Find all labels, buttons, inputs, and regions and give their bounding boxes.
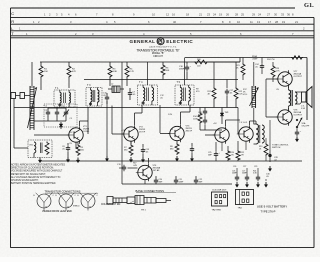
wire detector out — [200, 129, 222, 131]
label VT4 — [153, 165, 161, 172]
transistor VT3 second IF amp — [168, 125, 184, 142]
label C21 — [179, 179, 185, 183]
transistor VT2 first IF amp — [122, 125, 138, 142]
capacitor C29 to ground — [256, 168, 260, 187]
title underline base connections — [136, 191, 176, 193]
svg-text:OSC: OSC — [29, 145, 34, 147]
svg-text:OUTPUT: OUTPUT — [294, 115, 303, 117]
wire VT3 base drop — [159, 105, 161, 133]
resistor R19 — [264, 138, 268, 161]
tone switch S2 — [269, 150, 272, 162]
svg-text:ON-OFF: ON-OFF — [302, 125, 310, 127]
wire VT2 collector to T4 — [135, 105, 143, 125]
transistor VT6 driver — [237, 125, 253, 142]
gang section box — [44, 104, 77, 127]
ground C15 — [191, 156, 193, 159]
diode D1 — [59, 122, 63, 129]
svg-text:1ST AF: 1ST AF — [153, 169, 161, 172]
label C25 — [208, 152, 213, 156]
capacitor C7 — [128, 88, 132, 100]
label C12 — [160, 95, 165, 99]
label C19 — [117, 164, 122, 166]
label C26 top — [232, 171, 237, 175]
svg-text:C: C — [11, 11, 14, 16]
label C5 — [70, 118, 72, 120]
resistor R11 — [212, 62, 216, 108]
capacitor C4 trimmer — [63, 108, 69, 121]
IF can side view — [107, 196, 171, 205]
label C27 — [243, 166, 246, 168]
label R12 — [239, 91, 244, 95]
wire rail continue — [208, 61, 240, 63]
svg-text:50MF: 50MF — [179, 181, 185, 183]
transistor VT8 output — [276, 108, 292, 125]
svg-text:OUTPUT: OUTPUT — [294, 76, 303, 78]
wire VT2 base drop — [111, 106, 113, 135]
label R24 — [267, 59, 275, 61]
component locator ruler — [11, 7, 296, 9]
label C8 — [62, 146, 66, 150]
capacitor C18 — [203, 108, 207, 131]
transistor VT7 output — [276, 70, 292, 87]
label C27 top — [242, 171, 247, 175]
label C4 — [62, 106, 64, 108]
ground osc — [39, 158, 41, 161]
label VT6 T6 ratio — [239, 122, 248, 124]
resistor R23 — [271, 62, 275, 82]
label C20 — [159, 179, 164, 183]
svg-text:24: 24 — [258, 13, 261, 17]
capacitor C27 to ground — [245, 168, 249, 187]
resistor R10 series — [194, 60, 208, 64]
capacitor C17 — [225, 80, 229, 108]
resistor R6 — [161, 62, 165, 80]
capacitor C20 — [154, 176, 158, 184]
label C2 trimmer — [45, 106, 47, 108]
wire base link — [265, 79, 267, 117]
wire VT4 collector up — [149, 158, 161, 164]
svg-text:C4: C4 — [62, 106, 64, 108]
svg-text:15K: 15K — [44, 71, 48, 73]
wire right edge drop — [306, 58, 308, 121]
label R7 — [124, 147, 128, 151]
diode D2 detector — [220, 108, 224, 125]
wire upper right rail — [185, 57, 307, 59]
ground C31 — [296, 137, 298, 140]
wire VT6 emitter — [245, 141, 247, 150]
capacitor C14 — [141, 144, 145, 157]
svg-text:3.9K: 3.9K — [113, 71, 118, 73]
svg-text:3.5Ω: 3.5Ω — [301, 108, 306, 110]
capacitor C24 — [260, 58, 264, 75]
svg-text:1.8V: 1.8V — [168, 114, 173, 116]
wire VT2 base — [112, 133, 124, 135]
label C10 — [103, 93, 108, 97]
svg-text:40: 40 — [173, 20, 176, 24]
wire VT6 collector to T6 — [250, 121, 257, 125]
svg-text:VOL.: VOL. — [243, 94, 248, 96]
label VT7 — [294, 71, 303, 78]
svg-text:21: 21 — [295, 20, 298, 24]
svg-text:GENERAL: GENERAL — [130, 39, 156, 44]
label C17 — [230, 90, 235, 94]
label R23 — [276, 68, 281, 72]
connection diagram transistor 2 — [56, 193, 77, 211]
wire VT1 collector — [80, 107, 89, 134]
wire antenna down-lead — [14, 99, 28, 149]
svg-text:12: 12 — [166, 13, 169, 17]
transistor VT4 first AF — [136, 164, 152, 181]
ground R7 — [130, 157, 132, 160]
label S1 — [302, 122, 310, 127]
svg-text:47K: 47K — [72, 71, 76, 73]
wire converter base net — [34, 107, 66, 121]
label R1 — [44, 69, 48, 74]
label VT5 — [213, 123, 217, 125]
label tone control switch — [272, 145, 289, 150]
svg-text:26: 26 — [226, 13, 229, 17]
ground C6 — [106, 156, 108, 159]
label C18 — [198, 112, 203, 116]
svg-text:METER WITH NO SIGNAL INPUT;: METER WITH NO SIGNAL INPUT; — [11, 173, 46, 176]
svg-text:10K: 10K — [166, 70, 170, 72]
svg-text:ALL VOLTAGES NEGATIVE WITH RES: ALL VOLTAGES NEGATIVE WITH RESPECT TO — [11, 176, 61, 179]
label R19 — [259, 146, 262, 150]
title GENERAL ELECTRIC — [130, 39, 194, 44]
capacitor C15 — [190, 143, 194, 156]
resistor R5 — [76, 143, 80, 157]
wire C6 down — [106, 101, 108, 156]
capacitor C21 — [174, 176, 178, 184]
wire volume top — [253, 62, 255, 86]
label R6 — [166, 68, 170, 73]
label D2 — [225, 112, 230, 114]
wire volume bottom — [253, 108, 255, 124]
capacitor C26 to ground — [235, 168, 239, 187]
svg-text:R: R — [11, 19, 14, 24]
svg-text:R24 750: R24 750 — [267, 59, 275, 61]
ground C14b — [142, 157, 144, 160]
volume control R17 — [250, 86, 259, 108]
label C14b — [146, 149, 151, 153]
svg-text:SHIELD: SHIELD — [73, 206, 80, 208]
transformer T4 second IF — [138, 85, 158, 105]
wire AGC bus — [14, 107, 238, 109]
wire VT6 base — [237, 108, 239, 135]
connection diagram transistor 3 — [78, 193, 99, 211]
label R17 volume — [243, 89, 248, 96]
capacitor C25 electrolytic — [214, 142, 221, 161]
resistor R20 — [226, 146, 230, 161]
wire ground bus — [40, 160, 302, 162]
svg-text:21: 21 — [199, 13, 202, 17]
resistor R8 — [175, 141, 179, 155]
svg-text:TR2 TRB: TR2 TRB — [212, 209, 222, 211]
label C24 — [255, 64, 260, 68]
wire VT4 emitter down — [144, 180, 146, 184]
svg-text:27: 27 — [267, 13, 270, 17]
svg-text:CIRCUIT: CIRCUIT — [153, 55, 163, 58]
label T2 osc — [29, 145, 34, 147]
label R2 — [72, 69, 76, 74]
svg-text:1ST IF: 1ST IF — [139, 132, 146, 134]
wire VT4 base drop — [121, 150, 123, 184]
wire battery feed — [296, 127, 298, 128]
ground R5 — [77, 158, 79, 161]
label colour dot arrow — [128, 201, 134, 204]
wire VT1 emitter — [75, 142, 77, 148]
resistor R21 — [241, 58, 245, 81]
label C26 — [233, 166, 236, 168]
svg-text:10: 10 — [237, 20, 240, 24]
title underline transistor connections — [45, 192, 98, 194]
label VT4 voltages — [133, 163, 138, 167]
svg-text:2.7K: 2.7K — [130, 71, 135, 73]
label VT3 — [186, 126, 193, 133]
resistor R14 — [198, 108, 202, 131]
filter coil L2 — [108, 86, 124, 93]
svg-text:28: 28 — [275, 20, 278, 24]
svg-text:SWITCH: SWITCH — [272, 147, 281, 149]
svg-text:T 6 1:4.5: T 6 1:4.5 — [239, 122, 248, 124]
transistor VT1 converter — [67, 126, 83, 143]
loudspeaker LS — [300, 87, 312, 108]
ruler R row numbers — [33, 20, 298, 24]
svg-text:.05MF: .05MF — [252, 59, 258, 61]
label R8 — [170, 146, 174, 150]
transformer T5 third IF — [175, 85, 194, 105]
label LS — [301, 106, 306, 110]
label C29 top — [253, 171, 257, 175]
svg-text:19: 19 — [282, 20, 285, 24]
label R19A — [252, 55, 258, 60]
ground C8 — [67, 157, 69, 160]
svg-text:-1.5V: -1.5V — [121, 130, 126, 132]
label R14 — [193, 116, 198, 120]
svg-text:270: 270 — [231, 154, 234, 156]
ruler L row numbers — [19, 26, 305, 30]
oscillator coil T1 — [54, 90, 75, 107]
capacitor C31 electrolytic — [295, 128, 302, 136]
capacitor C19 coupling — [119, 165, 126, 171]
svg-text:TRANSISTOR CONNECTIONS: TRANSISTOR CONNECTIONS — [45, 190, 81, 194]
svg-text:18: 18 — [186, 13, 189, 17]
ruler C row numbers — [44, 13, 294, 17]
tuning gang C1 — [28, 86, 37, 130]
label VT2 — [139, 127, 146, 134]
svg-text:C2: C2 — [45, 106, 47, 108]
wire top supply rail — [40, 61, 240, 63]
wire VT5 base — [205, 134, 215, 136]
label R3 — [113, 69, 118, 74]
label VT8 — [294, 110, 303, 117]
wire tone feed — [269, 120, 271, 150]
svg-text:30: 30 — [274, 13, 277, 17]
wire VT8 base — [266, 116, 278, 118]
svg-text:C29: C29 — [254, 166, 257, 168]
transformer bottom view TR4 — [236, 190, 254, 205]
svg-text:BATTERY POSITIVE TERMINAL EART: BATTERY POSITIVE TERMINAL EARTHED. — [11, 182, 56, 185]
wire VT5 collector — [226, 120, 241, 126]
oscillator coil T2 box — [28, 140, 52, 158]
antenna rod L1 — [11, 93, 30, 99]
resistor R22 — [236, 141, 240, 161]
label R9 — [196, 89, 200, 93]
wire gang top — [31, 62, 33, 86]
wire VT2 emitter — [130, 141, 132, 144]
wire AF bottom bus — [122, 183, 232, 185]
transistor VT5 audio driver — [213, 126, 229, 143]
svg-text:10: 10 — [152, 13, 155, 17]
wire T5 top feed — [184, 58, 186, 86]
resistor R1 — [39, 62, 43, 90]
label C29 — [254, 166, 257, 168]
ground R8 — [176, 156, 178, 159]
resistor R3 — [108, 62, 112, 86]
wire VT7 base — [266, 78, 278, 80]
svg-text:G1.: G1. — [304, 2, 314, 9]
wire rail link — [239, 58, 241, 63]
label C16 — [179, 66, 185, 70]
svg-text:2ND IF: 2ND IF — [186, 131, 193, 133]
wire VT4 base — [128, 167, 138, 169]
resistor R25 feedback — [291, 56, 303, 60]
label R5 — [81, 147, 85, 151]
svg-text:36: 36 — [287, 13, 290, 17]
svg-text:C27: C27 — [243, 166, 246, 168]
capacitor C22 — [194, 176, 198, 184]
svg-text:TYPE 276-P: TYPE 276-P — [261, 210, 276, 214]
svg-text:DIRECTION OF CLOCKWISE ROTATIO: DIRECTION OF CLOCKWISE ROTATION; — [11, 167, 54, 170]
resistor R2 — [67, 62, 71, 88]
svg-text:C5: C5 — [70, 118, 72, 120]
svg-text:28: 28 — [235, 13, 238, 17]
label R22 — [241, 152, 245, 156]
label R21 — [236, 65, 241, 69]
label C30 — [266, 174, 271, 178]
svg-text:25: 25 — [241, 13, 244, 17]
wire T4 top feed — [147, 62, 149, 85]
resistor R12 — [234, 62, 238, 108]
svg-text:23: 23 — [207, 13, 210, 17]
label R11 — [208, 91, 212, 95]
svg-text:BASE CONNECTIONS: BASE CONNECTIONS — [136, 189, 165, 193]
wire VT1 base — [34, 134, 69, 136]
wire VT3 collector to T5 area — [181, 105, 191, 125]
transformer T3 first IF — [86, 88, 102, 107]
svg-text:13: 13 — [257, 20, 260, 24]
svg-text:USE 9 VOLT BATTERY: USE 9 VOLT BATTERY — [257, 205, 287, 209]
label C2 — [45, 110, 49, 112]
wire VT4 base net — [122, 62, 128, 150]
svg-text:CHASSIS SOUND EARTH;: CHASSIS SOUND EARTH; — [11, 179, 39, 182]
wire mid rail — [84, 79, 238, 81]
transformer bottom view TR2 TRB — [212, 192, 228, 206]
svg-text:16: 16 — [172, 13, 175, 17]
capacitor C2 — [46, 108, 50, 121]
capacitor C3 — [55, 108, 59, 121]
wire VT3 base — [160, 133, 170, 135]
svg-text:24: 24 — [213, 13, 216, 17]
label C22 — [199, 179, 204, 183]
GE logo — [157, 38, 164, 45]
label R20 — [231, 152, 234, 156]
connection diagram transistor 1 — [34, 193, 55, 211]
wire VT5 emitter — [221, 142, 223, 151]
svg-text:C26: C26 — [233, 166, 236, 168]
svg-text:25MF: 25MF — [179, 68, 185, 70]
notes text block — [11, 164, 65, 185]
svg-text:19: 19 — [219, 13, 222, 17]
ground tone switch — [269, 166, 271, 169]
label VT1 — [83, 126, 90, 133]
svg-text:VIEWED FROM LEAD END: VIEWED FROM LEAD END — [42, 210, 72, 213]
svg-text:VOLTAGES MEASURED WITH 20,000: VOLTAGES MEASURED WITH 20,000 OHM/VOLT — [11, 170, 63, 173]
svg-text:4.7K: 4.7K — [276, 70, 281, 72]
capacitor C8 — [66, 143, 70, 157]
output transformer T7 secondary — [295, 92, 300, 104]
svg-text:33: 33 — [281, 13, 284, 17]
svg-text:COLOUR DOT RD: COLOUR DOT RD — [101, 204, 121, 206]
resistor R7 — [129, 142, 133, 157]
ruler T row numbers — [26, 32, 294, 36]
switch S1 on-off — [296, 118, 302, 128]
svg-text:TR 1: TR 1 — [141, 210, 147, 212]
label C7 — [133, 92, 137, 96]
driver transformer T6 — [254, 124, 265, 144]
svg-text:17: 17 — [268, 20, 271, 24]
output transformer T7 primary — [289, 87, 293, 110]
label R4 — [130, 69, 135, 74]
svg-text:100K: 100K — [193, 118, 198, 120]
capacitor C16 electrolytic — [185, 62, 192, 80]
capacitor C6 — [105, 93, 109, 104]
svg-text:ELECTRIC: ELECTRIC — [166, 39, 193, 44]
label C28 tone — [274, 157, 279, 161]
svg-text:COLOUR DOT: COLOUR DOT — [212, 189, 227, 191]
resistor R24b to ground — [264, 179, 267, 187]
svg-text:NOTES: ARROW ON POTENTIOMETER: NOTES: ARROW ON POTENTIOMETER INDICATES — [11, 164, 65, 167]
svg-text:29: 29 — [252, 13, 255, 17]
resistor R4 — [125, 62, 129, 86]
svg-text:CONV.: CONV. — [83, 131, 90, 133]
